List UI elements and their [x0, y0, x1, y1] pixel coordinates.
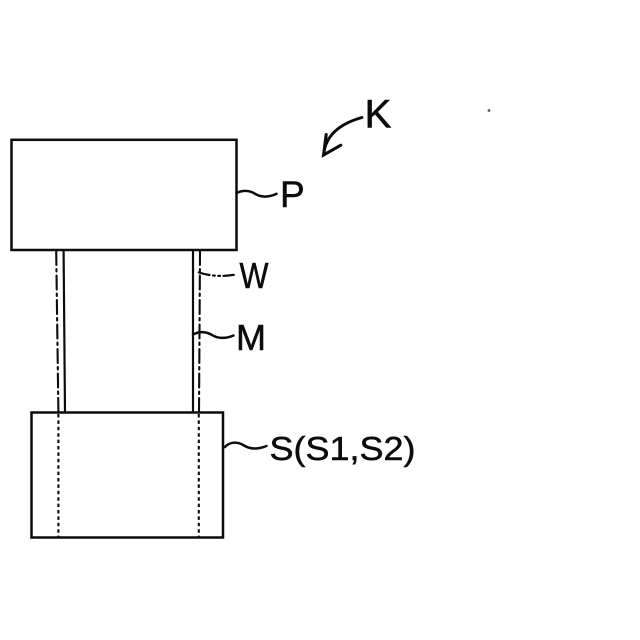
svg-text:K: K: [365, 93, 392, 137]
svg-text:M: M: [236, 317, 266, 358]
svg-text:W: W: [240, 255, 269, 296]
svg-text:P: P: [280, 174, 305, 215]
svg-text:S(S1,S2): S(S1,S2): [270, 430, 416, 467]
